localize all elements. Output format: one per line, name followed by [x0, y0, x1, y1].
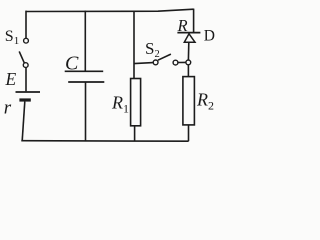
switch S2	[153, 54, 178, 65]
wire R1 top lead	[133, 11, 135, 79]
svg-text:E: E	[5, 69, 17, 89]
wire R1 bottom lead	[134, 126, 136, 141]
wire node to R2	[187, 65, 189, 77]
wire S2 left lead	[134, 63, 153, 64]
resistor R2	[183, 77, 195, 125]
capacitor C	[65, 71, 105, 82]
wire R2 bottom lead	[188, 125, 190, 141]
svg-text:R1: R1	[111, 93, 129, 116]
wire top bus	[26, 9, 194, 11]
svg-text:r: r	[4, 98, 12, 119]
wire capacitor bottom lead	[85, 82, 87, 141]
wire S1 to battery	[25, 68, 27, 92]
svg-text:R2: R2	[196, 90, 214, 113]
svg-text:S2: S2	[145, 39, 160, 60]
switch S1	[19, 38, 28, 67]
wire S1 top lead	[25, 11, 27, 39]
resistor R1	[131, 79, 141, 126]
wire S2 to node	[178, 61, 186, 63]
node junction on diode branch	[186, 60, 191, 65]
wire battery to bottom bus	[22, 102, 25, 141]
svg-text:C: C	[65, 53, 79, 75]
wire diode to node	[187, 42, 189, 60]
wire right branch top lead	[193, 9, 195, 33]
diode D	[177, 33, 200, 43]
svg-text:R: R	[177, 16, 188, 35]
svg-text:S1: S1	[5, 28, 19, 47]
battery E r	[16, 92, 41, 100]
svg-text:D: D	[204, 27, 215, 44]
wire bottom bus	[21, 140, 188, 143]
wire capacitor top lead	[84, 11, 86, 72]
